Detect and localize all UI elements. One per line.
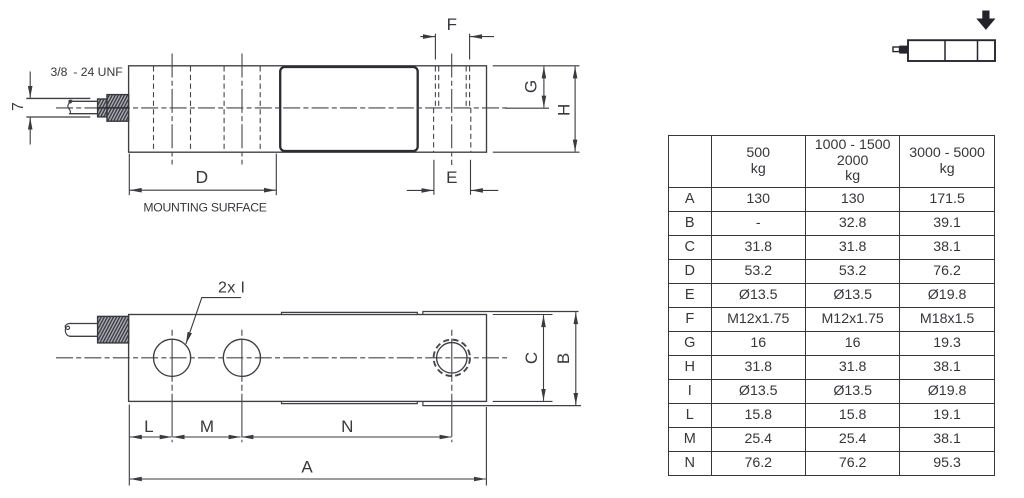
threaded hole thread circle (dashed) <box>434 340 470 376</box>
icon load cell body <box>908 40 995 61</box>
side view horizontal centerline <box>56 107 507 109</box>
left extension line (A/L) <box>128 405 130 486</box>
svg-text:F: F <box>447 15 457 34</box>
icon divider 2 <box>977 40 979 61</box>
icon connector nipple <box>893 47 900 52</box>
dimension L <box>130 436 172 438</box>
dimension A <box>130 478 486 480</box>
plan view body outline <box>129 315 487 402</box>
svg-text:D: D <box>195 167 208 187</box>
dimension D <box>129 154 276 196</box>
threaded hole F hidden lines (dashed, upper half) <box>435 66 469 108</box>
mounting hole 1 centerline <box>171 54 173 165</box>
side view pocket cover (thick rounded rectangle) <box>280 67 418 151</box>
leader 2x I <box>186 298 241 344</box>
plan view raised end top edge (B extension) <box>423 312 579 315</box>
load hole centerline <box>451 54 453 166</box>
hole 3 vertical centerline / extension <box>451 330 453 443</box>
cable inner lines <box>69 100 98 102</box>
right extension line (A) <box>485 407 487 486</box>
plan view horizontal centerline <box>56 357 507 359</box>
clearance hole E hidden lines (dashed, lower half) <box>434 108 471 152</box>
svg-text:M: M <box>200 417 214 436</box>
dimension N <box>241 436 451 438</box>
plan view pocket seam top <box>282 312 418 314</box>
hole 2 vertical centerline / extension <box>241 330 243 443</box>
mounting hole 2 centerline <box>241 54 243 165</box>
dimension H <box>493 66 580 152</box>
cable gland large section <box>107 95 129 122</box>
dimension table <box>668 135 995 476</box>
hole 1 vertical centerline / extension <box>171 330 173 443</box>
side view body outline <box>129 66 487 152</box>
svg-text:A: A <box>301 458 313 477</box>
dimension G <box>493 66 580 108</box>
dimension E <box>407 160 499 195</box>
svg-text:C: C <box>522 352 541 364</box>
icon connector block <box>899 46 908 54</box>
mounting hole 1 hidden edges (dashed) <box>154 66 191 152</box>
plan view cable lines <box>70 323 98 325</box>
dimension F <box>420 34 494 60</box>
gland center split line <box>98 107 129 109</box>
icon load arrow <box>976 11 995 30</box>
svg-text:G: G <box>522 80 541 93</box>
svg-text:2x I: 2x I <box>218 280 245 297</box>
cable gland small section <box>98 99 107 117</box>
cable break squiggle <box>68 100 72 113</box>
mounting hole 2 hidden edges (dashed) <box>224 66 260 152</box>
icon divider 1 <box>944 40 946 61</box>
svg-text:L: L <box>144 417 153 436</box>
svg-text:H: H <box>555 104 574 116</box>
svg-text:MOUNTING SURFACE: MOUNTING SURFACE <box>143 201 266 215</box>
cable outer jacket lines <box>26 97 90 99</box>
plan view raised end bottom edge (B extension) <box>423 401 581 405</box>
dimension 7 (cable diameter) <box>29 72 31 145</box>
threaded hole circle (solid) <box>437 343 467 373</box>
plan view cable break loop <box>65 323 71 336</box>
mounting hole 1 circle <box>154 339 191 376</box>
mounting hole 2 circle <box>223 339 260 376</box>
svg-text:E: E <box>446 168 457 187</box>
svg-text:3/8 - 24 UNF: 3/8 - 24 UNF <box>51 65 123 79</box>
dimension B <box>575 312 577 405</box>
plan view cable gland <box>98 316 129 343</box>
dimension C <box>493 315 553 402</box>
dimension M <box>173 436 241 438</box>
svg-text:B: B <box>554 353 573 364</box>
plan view pocket seam bottom <box>282 401 418 403</box>
svg-text:7: 7 <box>10 102 27 111</box>
svg-text:N: N <box>341 417 353 436</box>
